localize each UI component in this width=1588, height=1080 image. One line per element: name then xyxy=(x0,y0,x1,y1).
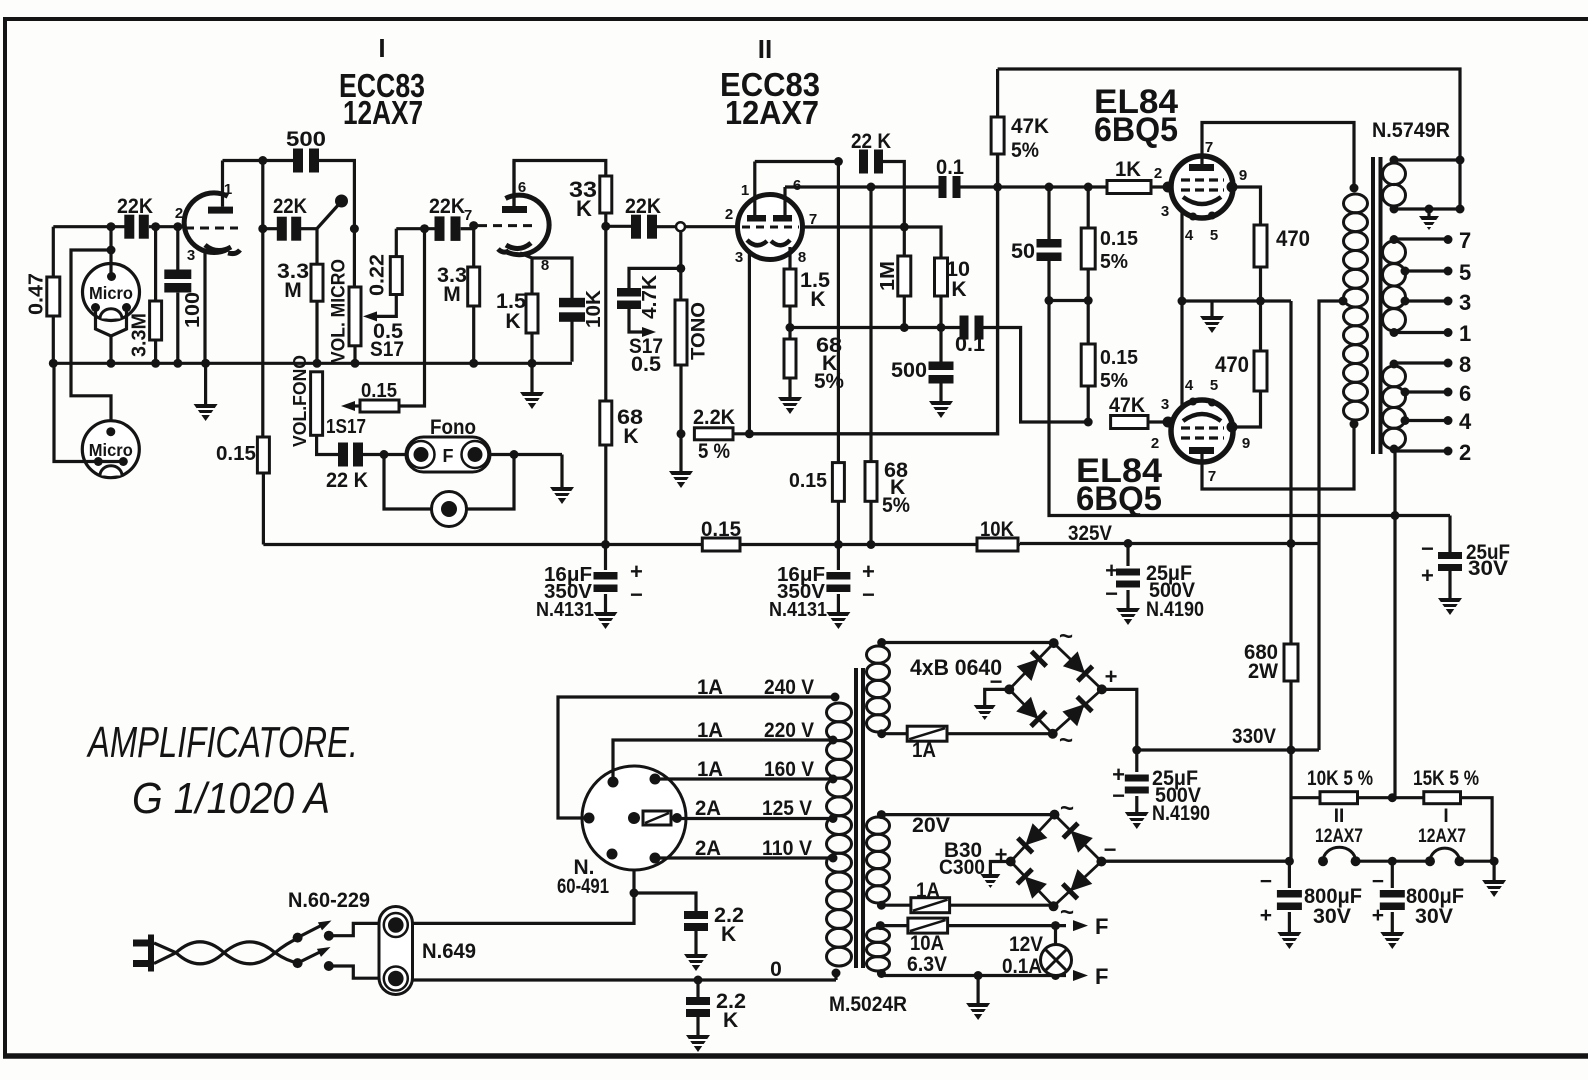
fuse 1A 20V xyxy=(911,898,950,913)
resistor 10K 5% heater xyxy=(1320,792,1358,804)
capacitor 50 pF xyxy=(1047,187,1050,240)
capacitor 22K coupling to tube II xyxy=(606,225,634,228)
svg-text:6.3V: 6.3V xyxy=(907,953,947,976)
wire 22K cap to 1M xyxy=(880,162,904,257)
power transformer HT secondary xyxy=(867,646,890,663)
svg-text:K: K xyxy=(951,278,966,301)
wire speaker tap 8 xyxy=(1394,361,1448,364)
svg-text:10K 5 %: 10K 5 % xyxy=(1307,767,1373,790)
node 20V top xyxy=(877,810,886,819)
tube II plate 1 bar xyxy=(747,215,766,222)
svg-text:4xB 0640: 4xB 0640 xyxy=(910,655,1002,680)
svg-text:G 1/1020 A: G 1/1020 A xyxy=(132,774,330,823)
potentiometer VOL.FONO xyxy=(311,372,323,436)
wire 10K bottom xyxy=(939,296,942,328)
resistor 47K grid EL84 II xyxy=(1111,416,1148,429)
svg-text:500: 500 xyxy=(891,359,927,382)
svg-text:0.15: 0.15 xyxy=(1100,228,1138,250)
resistor 15K 5% heater xyxy=(1424,792,1461,804)
resistor 3.3M second xyxy=(311,264,323,301)
svg-text:2: 2 xyxy=(1459,440,1471,465)
wire tube II pin6 row B xyxy=(785,185,941,188)
wire bridge2 minus to heater bus xyxy=(1101,860,1289,863)
node HT top xyxy=(877,638,886,647)
svg-text:~: ~ xyxy=(1060,795,1074,822)
svg-text:K: K xyxy=(505,310,520,333)
svg-text:22 K: 22 K xyxy=(851,130,891,153)
wire wiper line down to 1S17 row xyxy=(423,229,426,364)
capacitor 2.2K mains filter second xyxy=(696,980,699,997)
capacitor 22K plate feedback xyxy=(859,150,868,174)
node tap 220 xyxy=(829,736,838,745)
wire 50pF down to bus xyxy=(1049,260,1450,516)
svg-text:10A: 10A xyxy=(910,932,944,955)
wire fono row xyxy=(317,435,338,454)
resistor 47K 5% feedback xyxy=(991,117,1004,154)
svg-text:0.15: 0.15 xyxy=(1100,347,1138,369)
wire mains to selector xyxy=(413,818,635,923)
selector pin top left xyxy=(608,777,619,788)
node 25uF1 bus xyxy=(1124,539,1133,548)
svg-text:−: − xyxy=(1421,536,1434,561)
wire 160V tap xyxy=(655,777,831,780)
wire 6.3V top to fuse xyxy=(880,924,908,927)
node 4.7K branch xyxy=(676,264,685,273)
svg-text:240 V: 240 V xyxy=(764,676,814,699)
wire 330V bus xyxy=(1137,748,1319,751)
svg-text:2A: 2A xyxy=(695,837,721,860)
wire micro1 hot xyxy=(109,227,112,277)
capacitor 25uF 30V feedback xyxy=(1448,516,1451,553)
resistor 0.15 bus xyxy=(702,538,740,551)
resistor 10K xyxy=(935,258,948,296)
node tap 0 xyxy=(832,969,841,978)
wire 240V tap xyxy=(558,697,832,818)
ground EL84 cathodes xyxy=(1210,301,1213,316)
output transformer secondary group3 xyxy=(1383,366,1406,387)
svg-text:0.47: 0.47 xyxy=(26,273,48,315)
ground secondary xyxy=(1427,209,1430,216)
switch mains pole 2 xyxy=(293,958,303,968)
wire sec tap row 160 xyxy=(1394,158,1460,161)
tube II plate 6 bar xyxy=(773,215,792,222)
svg-text:2: 2 xyxy=(725,206,733,223)
wire 10K bypass branch xyxy=(532,258,572,300)
EL84 I plate bar xyxy=(1189,164,1214,171)
node micro2 branch xyxy=(107,246,116,255)
wire to 325V bus xyxy=(1289,301,1292,544)
wire fono right xyxy=(489,453,563,456)
svg-text:N.649: N.649 xyxy=(422,940,476,963)
svg-text:5%: 5% xyxy=(1011,139,1039,162)
wire 0.15 divider long vertical xyxy=(837,162,840,463)
resistor 470 lower xyxy=(1254,351,1267,391)
wire micro2 ground xyxy=(54,363,123,461)
wire heater dropper right xyxy=(1461,798,1493,862)
svg-text:100: 100 xyxy=(182,292,204,328)
connector Fono xyxy=(406,437,490,472)
svg-text:0.5: 0.5 xyxy=(631,353,661,376)
resistor 68K 5% divider xyxy=(865,462,877,502)
capacitor 500 treble xyxy=(293,149,303,173)
wire twisted mains cord xyxy=(154,943,176,953)
output transformer core xyxy=(1371,157,1375,454)
EL84 II cathode arc xyxy=(1183,414,1221,421)
wire to micro 2 xyxy=(71,250,111,432)
svg-text:12AX7: 12AX7 xyxy=(343,94,423,131)
arrow S17 tone switch xyxy=(629,306,645,332)
tube I-a grid dashes xyxy=(185,227,238,230)
wire 110V tap xyxy=(655,856,831,859)
wire plate row tube I xyxy=(223,159,295,162)
svg-text:1S17: 1S17 xyxy=(326,416,366,438)
svg-text:TONO: TONO xyxy=(689,302,710,360)
svg-text:K: K xyxy=(576,196,592,221)
svg-text:22K: 22K xyxy=(625,195,661,218)
svg-text:2.2K: 2.2K xyxy=(693,406,735,429)
wire speaker tap 6 xyxy=(1405,390,1448,393)
svg-text:9: 9 xyxy=(1242,435,1250,452)
node 680 top xyxy=(1287,539,1296,548)
tube I triode b (half ECC83) xyxy=(506,195,550,255)
node 16uF2 bus xyxy=(834,540,843,549)
ground 16uF first xyxy=(604,594,607,612)
wire row300 link xyxy=(1049,299,1088,302)
wire plate I-b row xyxy=(514,161,606,207)
fuse 10A xyxy=(908,918,948,933)
ground 800uF left xyxy=(1288,912,1291,932)
resistor 33K plate load I-b xyxy=(600,176,612,213)
resistor 0.22 xyxy=(390,257,402,295)
heater filament II arc xyxy=(1323,847,1356,861)
wire B+ bus xyxy=(263,543,702,546)
wire EL84 II plate to transformer xyxy=(1202,424,1354,489)
wire 20V top to bridge xyxy=(881,813,1054,816)
svg-text:M.5024R: M.5024R xyxy=(829,993,907,1016)
svg-text:220 V: 220 V xyxy=(764,719,814,742)
wire plate I-a down xyxy=(261,161,264,438)
svg-text:S17: S17 xyxy=(370,338,404,361)
svg-text:+: + xyxy=(1421,563,1434,588)
power transformer core xyxy=(854,668,858,968)
svg-text:+: + xyxy=(995,842,1008,867)
node heater bus left xyxy=(1285,857,1294,866)
ground fono xyxy=(560,455,563,488)
svg-text:0.1: 0.1 xyxy=(955,333,985,356)
tube I-a cathode xyxy=(205,245,231,251)
svg-text:2: 2 xyxy=(1154,165,1162,182)
node 33K junction xyxy=(601,222,610,231)
svg-text:~: ~ xyxy=(1059,623,1073,650)
svg-text:8: 8 xyxy=(1459,352,1471,377)
svg-text:F: F xyxy=(1095,964,1108,989)
wire 125V tap xyxy=(677,817,831,820)
wire tono bottom xyxy=(679,365,682,434)
capacitor 25uF 500V upper xyxy=(1126,544,1129,567)
wire feedback vertical 997 xyxy=(996,69,999,117)
capacitor 0.1 coupling lower xyxy=(960,316,969,340)
svg-text:7: 7 xyxy=(1208,468,1216,485)
svg-text:6BQ5: 6BQ5 xyxy=(1076,480,1162,518)
wire micro1 ground bracket xyxy=(96,308,127,337)
wire 1M bottom xyxy=(903,296,906,328)
capacitor 16uF 350V first xyxy=(604,545,607,571)
node mic input junction xyxy=(107,222,116,231)
wire sec tap row 209 grounded xyxy=(1394,207,1460,210)
selector pin left xyxy=(584,813,595,824)
svg-text:VOL.FONO: VOL.FONO xyxy=(290,355,310,447)
svg-text:−: − xyxy=(1112,783,1125,808)
mains plug xyxy=(133,940,152,947)
ground 16uF second xyxy=(837,594,840,612)
svg-text:22 K: 22 K xyxy=(326,469,368,492)
wire feedback top bus xyxy=(998,69,1460,160)
ground 25uF lower xyxy=(1135,796,1138,812)
resistor 68K xyxy=(600,401,612,445)
capacitor 22K input xyxy=(124,215,134,239)
svg-text:6: 6 xyxy=(518,179,526,196)
svg-text:Micro: Micro xyxy=(89,440,133,460)
tube I-b cathode xyxy=(506,243,531,249)
svg-text:+: + xyxy=(1105,558,1118,583)
svg-text:6BQ5: 6BQ5 xyxy=(1094,111,1178,149)
node 47K grid EL84 II xyxy=(1084,418,1093,427)
svg-text:−: − xyxy=(630,582,643,607)
resistor 1M xyxy=(898,256,911,296)
resistor 470 upper xyxy=(1254,225,1267,267)
svg-text:5%: 5% xyxy=(882,494,910,517)
node grid junction 100pF xyxy=(173,222,182,231)
svg-text:3: 3 xyxy=(1161,203,1169,220)
node grid junction 3.3M xyxy=(151,222,160,231)
svg-text:K: K xyxy=(721,923,736,946)
svg-text:+: + xyxy=(1260,904,1272,927)
node 680 bottom xyxy=(1287,746,1296,755)
wire 4.7K branch xyxy=(629,268,681,291)
wire 68K-5 long vertical xyxy=(869,187,872,462)
node 0.15 EL84 top xyxy=(1084,183,1093,192)
pickup loop xyxy=(384,455,432,510)
tube EL84 I envelope xyxy=(1171,156,1233,218)
wire speaker tap 7 xyxy=(1394,237,1448,240)
selector pin bottom left xyxy=(607,849,618,860)
node 1M bottom xyxy=(900,323,909,332)
svg-text:7: 7 xyxy=(1459,228,1471,253)
wire switch to connector xyxy=(329,923,380,935)
ground bus input stage xyxy=(53,362,572,365)
ground bridge2 plus xyxy=(990,862,1010,875)
svg-text:~: ~ xyxy=(1059,727,1073,754)
svg-text:5: 5 xyxy=(1459,260,1471,285)
wire cathode I-b xyxy=(520,253,532,294)
svg-text:AMPLIFICATORE.: AMPLIFICATORE. xyxy=(86,718,358,767)
wire speaker tap 5 xyxy=(1405,269,1448,272)
node plate I-a xyxy=(258,156,267,165)
wire heater dropper left down xyxy=(1289,750,1292,861)
svg-text:II: II xyxy=(1334,806,1345,827)
resistor 2.2K 5% xyxy=(694,428,733,440)
svg-text:30V: 30V xyxy=(1468,557,1508,580)
node tono bottom 2.2K xyxy=(677,429,686,438)
svg-text:3: 3 xyxy=(735,249,743,266)
node heater bus mid xyxy=(1388,857,1397,866)
svg-text:0.15: 0.15 xyxy=(701,518,741,541)
svg-text:12AX7: 12AX7 xyxy=(725,94,819,131)
svg-text:0.1A: 0.1A xyxy=(1002,955,1042,978)
resistor 0.15 fono wiper xyxy=(360,400,399,412)
wire mains neutral long xyxy=(413,978,837,981)
node ground 6.3V xyxy=(974,971,983,980)
svg-text:−: − xyxy=(1104,837,1117,862)
capacitor 10K bypass xyxy=(570,320,573,362)
svg-text:1K: 1K xyxy=(1115,158,1141,181)
svg-text:C300: C300 xyxy=(939,856,985,879)
svg-text:N.4131: N.4131 xyxy=(536,599,594,621)
tube I triode a (half ECC83) xyxy=(184,193,228,253)
EL84 II pin stubs 4 5 xyxy=(1189,398,1197,406)
wire 6.3V top to F xyxy=(948,924,1066,927)
svg-text:0: 0 xyxy=(770,958,782,981)
svg-text:−: − xyxy=(862,582,875,607)
resistor 0.15 5% lower xyxy=(1081,344,1095,386)
ground 25uF feedback xyxy=(1448,571,1451,598)
wire 0.1 lower to EL84 II grid xyxy=(981,328,1088,423)
node lamp top xyxy=(1051,921,1060,930)
ground bridge1 minus xyxy=(985,689,1010,705)
svg-text:7: 7 xyxy=(464,207,472,224)
svg-text:F: F xyxy=(1095,914,1108,939)
capacitor 0.1 coupling upper xyxy=(939,176,947,198)
wire pin 1 stem xyxy=(753,162,756,216)
arrow vol micro wiper xyxy=(395,229,398,257)
svg-text:12AX7: 12AX7 xyxy=(1315,826,1363,847)
svg-text:M: M xyxy=(443,283,461,306)
svg-text:9: 9 xyxy=(1239,167,1247,184)
svg-text:1A: 1A xyxy=(916,879,940,902)
capacitor 500 cathode bypass xyxy=(939,328,942,365)
switch mains pole 1 xyxy=(293,933,303,943)
svg-text:4: 4 xyxy=(1185,227,1194,244)
wire pin 6 stem xyxy=(783,187,786,215)
svg-text:500: 500 xyxy=(286,128,326,151)
svg-text:+: + xyxy=(630,559,643,584)
svg-text:0.22: 0.22 xyxy=(367,254,389,296)
node 25uF2 bus xyxy=(1132,746,1141,755)
svg-text:1A: 1A xyxy=(697,758,723,781)
svg-text:Micro: Micro xyxy=(89,283,133,303)
capacitor 800uF 30V right xyxy=(1391,861,1394,888)
svg-text:N.5749R: N.5749R xyxy=(1372,119,1450,142)
svg-text:10K: 10K xyxy=(980,518,1014,541)
svg-text:1: 1 xyxy=(1459,321,1471,346)
svg-text:3: 3 xyxy=(1161,396,1169,413)
wire 6.3V bottom xyxy=(881,974,1066,977)
wire fuse to bridge2 xyxy=(950,904,1054,907)
node primary centre tap xyxy=(1339,297,1348,306)
wire 470 to EL84 II pin9 xyxy=(1233,391,1261,427)
svg-text:1: 1 xyxy=(741,182,749,199)
svg-text:K: K xyxy=(810,288,825,311)
ground cathode II xyxy=(788,378,791,397)
resistor 0.15 plate I-a feedback xyxy=(257,437,269,473)
ground heater right xyxy=(1492,861,1495,880)
fuse 1A HT xyxy=(907,726,947,741)
svg-text:~: ~ xyxy=(1060,899,1074,926)
svg-text:12AX7: 12AX7 xyxy=(1418,826,1466,847)
capacitor 100 grid xyxy=(176,227,179,270)
node 22K second cap xyxy=(258,224,267,233)
svg-text:K: K xyxy=(723,1009,738,1032)
svg-text:0.15: 0.15 xyxy=(216,443,256,465)
connector Micro 2 xyxy=(82,421,139,478)
svg-text:−: − xyxy=(1372,870,1384,893)
wire tube II pin7 row xyxy=(803,227,942,258)
svg-text:−: − xyxy=(1260,870,1272,893)
resistor 680 2W xyxy=(1284,644,1298,681)
node heater bus right xyxy=(1490,857,1499,866)
node 0.15 feedback top xyxy=(834,157,843,166)
rectifier bridge B30 C300 xyxy=(1011,815,1102,907)
wire screen row 325V bus right xyxy=(1020,542,1319,545)
resistor 1K grid stopper EL84 I xyxy=(1107,181,1151,194)
node 68K-5 top xyxy=(867,183,876,192)
svg-text:5: 5 xyxy=(1210,227,1218,244)
tube EL84 II envelope xyxy=(1171,400,1233,462)
selector fuse link xyxy=(643,811,671,825)
pilot lamp 12V 0.1A xyxy=(1054,926,1057,945)
voltage selector disc N.60-491 xyxy=(582,766,686,870)
node fono left xyxy=(380,450,389,459)
capacitor 25uF 500V lower xyxy=(1135,750,1138,772)
resistor 3.3M grid xyxy=(150,301,162,340)
wire cathode row 327 xyxy=(790,326,961,329)
node 16uF1 bus xyxy=(601,540,610,549)
wire speaker tap 4 xyxy=(1405,419,1448,422)
svg-text:I: I xyxy=(378,33,385,63)
power transformer primary winding xyxy=(827,703,852,722)
resistor 3.3M third xyxy=(468,267,480,306)
svg-text:N.60-229: N.60-229 xyxy=(288,889,370,912)
wire tube I-a cathode to ground bus xyxy=(203,253,206,363)
tube II cathode arcs xyxy=(747,240,767,245)
node tap 160 xyxy=(829,775,838,784)
node grid I-b xyxy=(469,221,478,230)
tube I-b plate xyxy=(502,206,527,213)
wire 220V tap xyxy=(613,740,831,782)
ground 2.2K second xyxy=(696,1017,699,1035)
tube II ECC83 envelope xyxy=(738,195,803,260)
wire cathode link EL84 xyxy=(1180,213,1183,407)
wire grid row left (mic input row) xyxy=(53,225,124,228)
tube I-b grid dashes xyxy=(478,224,533,227)
svg-text:50: 50 xyxy=(1011,240,1035,263)
wire 0.15 lower to grid row xyxy=(1087,386,1090,422)
wire grid I-b down 3.3M xyxy=(472,226,475,267)
svg-text:22K: 22K xyxy=(273,195,307,218)
resistor 0.15 divider xyxy=(832,463,844,502)
node 6.3V bottom xyxy=(877,969,886,978)
wire speaker tap 1 xyxy=(1394,331,1448,334)
selector pin bottom right xyxy=(650,853,661,864)
wire feedback bus row 516 xyxy=(1391,511,1400,520)
svg-text:47K: 47K xyxy=(1011,115,1049,138)
node wiper line xyxy=(420,224,429,233)
selector centre contact xyxy=(628,812,640,824)
svg-text:2: 2 xyxy=(1151,435,1159,452)
svg-text:2A: 2A xyxy=(695,797,721,820)
power transformer 20V secondary xyxy=(867,817,890,834)
node 68K5 bus xyxy=(867,540,876,549)
